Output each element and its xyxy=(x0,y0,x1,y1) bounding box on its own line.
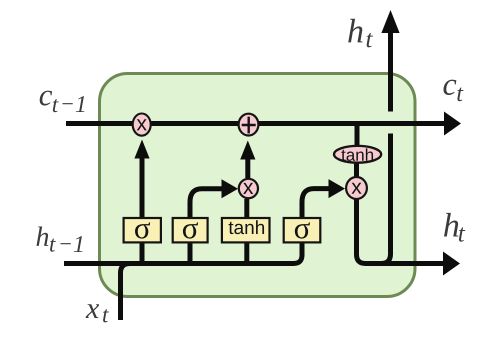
operator: output multiply circle xyxy=(346,177,367,199)
LSTM cell body xyxy=(100,74,416,297)
wire: input gate sigma2 curve into multiply xyxy=(190,179,238,266)
label x_t xyxy=(86,304,109,322)
label c_t xyxy=(443,80,463,102)
wire: tanh oval down to right multiply xyxy=(354,162,359,178)
operator: add circle xyxy=(239,114,259,136)
wire: forget gate column sigma1 up to multiply xyxy=(134,140,149,267)
wire: output of right multiply to h_t right arrow xyxy=(357,198,461,276)
wire: x_t input rising into h line xyxy=(121,264,131,321)
gate: sigma 2 box (input) xyxy=(173,218,208,242)
gate: candidate tanh box xyxy=(222,218,270,242)
wire: cell state line c with right arrow xyxy=(66,112,461,136)
wire: hidden state input line h, curving up into sigma4 xyxy=(64,218,302,264)
gate: sigma 1 box (forget) xyxy=(124,218,161,242)
wire: multiply up into add xyxy=(240,141,255,179)
label h_t right xyxy=(444,213,465,242)
label c_t-1 xyxy=(40,91,85,113)
wire: output gate sigma4 curve into right multiply xyxy=(302,179,345,218)
label h_t top xyxy=(348,19,373,48)
label h_t-1 xyxy=(37,226,83,252)
gate: sigma 4 box (output) xyxy=(284,218,321,242)
operator: forget gate multiply circle xyxy=(133,114,151,136)
operator: tanh oval xyxy=(334,146,381,163)
wire: branch up to h_t top arrow xyxy=(381,10,400,264)
operator: input multiply circle xyxy=(239,179,258,198)
wire: branch from c line down into tanh oval xyxy=(355,124,360,147)
wire: candidate tanh column xyxy=(244,199,249,266)
